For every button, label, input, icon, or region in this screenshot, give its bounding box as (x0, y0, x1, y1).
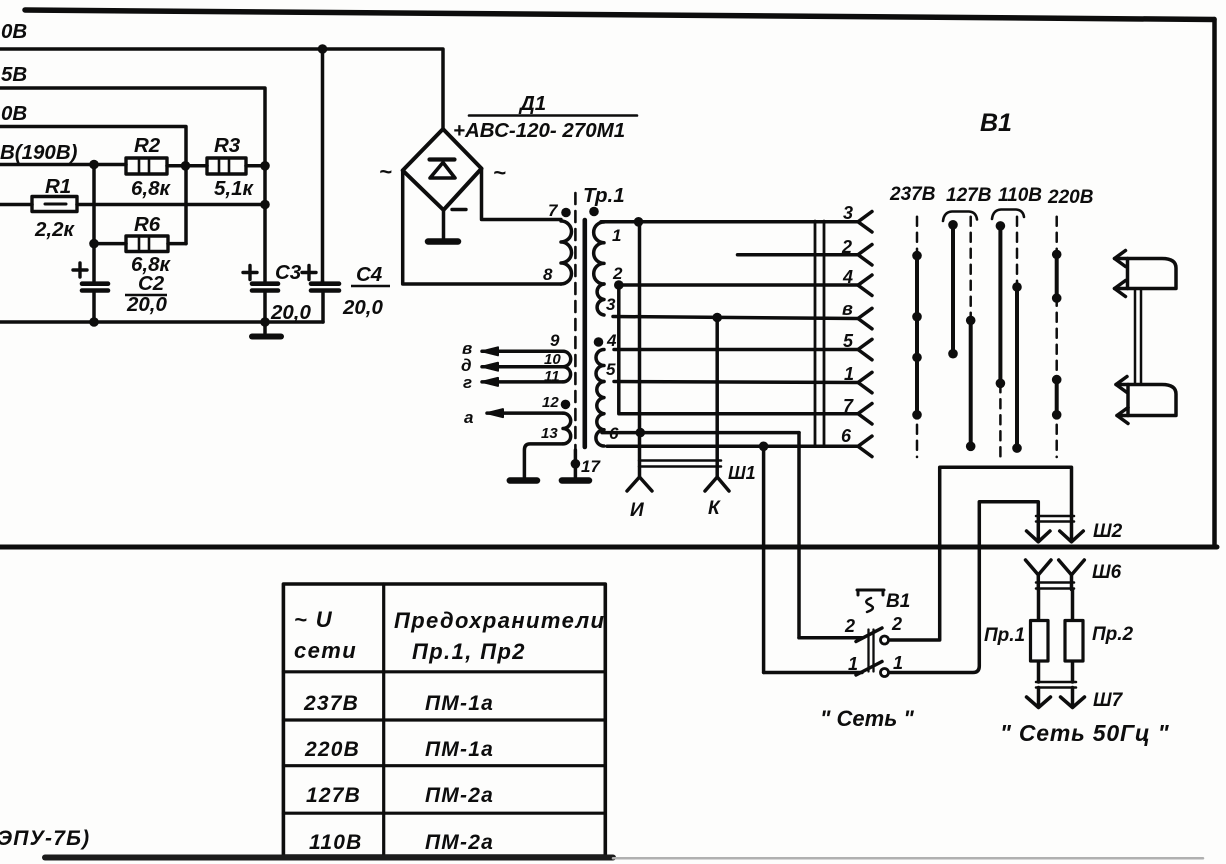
svg-text:Пр.2: Пр.2 (1092, 624, 1134, 645)
svg-text:R2: R2 (134, 134, 161, 157)
svg-text:С2: С2 (138, 272, 165, 295)
svg-text:4: 4 (606, 331, 617, 350)
svg-text:С3: С3 (275, 261, 302, 284)
svg-text:1: 1 (848, 654, 858, 674)
svg-text:11: 11 (544, 368, 560, 385)
svg-text:Ш7: Ш7 (1093, 690, 1124, 711)
svg-text:R1: R1 (45, 175, 71, 198)
svg-text:С4: С4 (356, 263, 383, 286)
svg-text:2: 2 (612, 264, 623, 283)
svg-text:Ш1: Ш1 (728, 463, 756, 483)
svg-text:ЭПУ-7Б): ЭПУ-7Б) (0, 827, 90, 850)
svg-text:220В: 220В (1047, 187, 1094, 208)
svg-text:в: в (842, 299, 853, 319)
svg-text:В1: В1 (980, 109, 1012, 137)
svg-text:1: 1 (612, 226, 621, 245)
svg-text:4: 4 (842, 267, 853, 287)
svg-text:R3: R3 (214, 134, 241, 157)
svg-text:2: 2 (841, 237, 852, 257)
svg-text:237В: 237В (889, 184, 936, 205)
svg-text:7: 7 (843, 396, 854, 416)
svg-text:Пр.1: Пр.1 (984, 625, 1025, 646)
svg-text:ПМ-2а: ПМ-2а (425, 831, 494, 854)
svg-text:а: а (464, 408, 473, 427)
svg-text:В1: В1 (886, 591, 910, 612)
svg-text:5В: 5В (1, 63, 27, 86)
svg-text:2: 2 (891, 614, 902, 634)
svg-text:ПМ-1а: ПМ-1а (425, 692, 494, 715)
svg-text:13: 13 (541, 425, 558, 442)
svg-text:237В: 237В (303, 692, 359, 715)
svg-text:20,0: 20,0 (126, 293, 167, 316)
svg-text:Предохранители: Предохранители (394, 608, 605, 633)
svg-text:127В: 127В (946, 185, 992, 206)
svg-text:20,0: 20,0 (342, 296, 383, 319)
svg-text:2,2к: 2,2к (34, 218, 75, 241)
svg-text:8: 8 (543, 265, 553, 284)
svg-text:110В: 110В (309, 831, 362, 854)
svg-text:5: 5 (843, 331, 854, 351)
svg-text:" Сеть ": " Сеть " (820, 706, 914, 731)
svg-text:6: 6 (609, 424, 619, 443)
svg-text:6,8к: 6,8к (131, 177, 171, 200)
svg-text:9: 9 (550, 331, 560, 350)
svg-text:110В: 110В (998, 185, 1042, 206)
svg-text:Д1: Д1 (518, 92, 546, 115)
svg-text:3: 3 (606, 295, 616, 314)
svg-text:5,1к: 5,1к (214, 177, 254, 200)
svg-text:7: 7 (548, 201, 559, 220)
svg-text:3: 3 (843, 203, 853, 223)
svg-text:1: 1 (893, 653, 903, 673)
svg-text:~: ~ (379, 159, 392, 184)
svg-text:1: 1 (844, 364, 854, 384)
svg-text:Тр.1: Тр.1 (583, 184, 625, 207)
svg-text:5: 5 (606, 360, 616, 379)
svg-text:~ U: ~ U (294, 607, 333, 632)
svg-text:К: К (708, 498, 721, 519)
svg-text:сети: сети (294, 638, 357, 663)
svg-text:" Сеть 50Гц ": " Сеть 50Гц " (1000, 720, 1170, 746)
svg-text:Пр.1, Пр2: Пр.1, Пр2 (412, 639, 526, 664)
svg-text:+АВС-120- 270М1: +АВС-120- 270М1 (453, 119, 625, 142)
svg-text:12: 12 (542, 394, 559, 411)
svg-text:2: 2 (844, 616, 855, 636)
svg-text:0В: 0В (1, 20, 27, 43)
svg-text:ПМ-2а: ПМ-2а (425, 784, 494, 807)
svg-text:10: 10 (544, 351, 561, 368)
svg-text:17: 17 (581, 457, 601, 476)
svg-text:20,0: 20,0 (270, 301, 311, 324)
svg-text:В(190В): В(190В) (0, 141, 78, 164)
svg-text:6: 6 (841, 426, 852, 446)
svg-text:г: г (463, 373, 472, 392)
svg-text:220В: 220В (304, 738, 360, 761)
svg-text:Ш6: Ш6 (1092, 562, 1122, 583)
svg-text:0В: 0В (1, 102, 27, 125)
svg-text:ПМ-1а: ПМ-1а (425, 738, 494, 761)
svg-text:~: ~ (493, 160, 506, 185)
svg-text:И: И (630, 500, 644, 521)
svg-text:127В: 127В (306, 784, 361, 807)
svg-text:R6: R6 (134, 213, 161, 236)
svg-text:Ш2: Ш2 (1093, 521, 1123, 542)
